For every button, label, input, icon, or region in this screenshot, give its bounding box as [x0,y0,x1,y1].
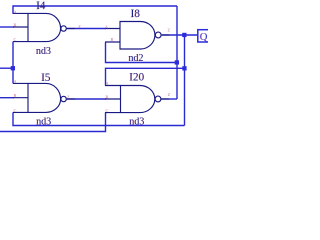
svg-text:B: B [106,95,109,100]
junction node x177 y62 [175,60,179,64]
nand3 gate I4 body [13,13,75,41]
svg-text:I8: I8 [131,8,141,20]
wire I20 output up the x177 vertical [161,98,177,100]
svg-text:nd3: nd3 [36,46,51,57]
svg-text:C: C [14,37,17,42]
svg-text:I20: I20 [129,71,144,83]
svg-text:I5: I5 [41,72,51,84]
svg-text:B: B [14,23,17,28]
junction node I4C-I5A y67.5 [11,66,15,70]
nand3 gate I5 body [13,83,75,112]
wire I8 output to port Q [162,34,198,36]
wire left vertical x13 joining I4 pin C and I5 pin A [12,42,14,84]
svg-text:Z: Z [78,24,81,29]
wire input to I5 pin B from left edge [0,97,14,99]
wire feedback row y67.5 to I20 pin A [106,68,185,85]
svg-text:nd3: nd3 [36,116,51,127]
wire right vertical x177 down to I20 output [176,6,178,99]
svg-text:Z: Z [168,28,171,33]
wire I5 output to I20 pin B [67,98,106,100]
svg-text:Z: Z [168,92,171,97]
junction node x184.5 y35 [182,33,186,37]
svg-text:nd2: nd2 [129,53,144,64]
output port Q box [198,30,210,42]
wire Q feedback vertical x184.5 [184,35,186,126]
wire input bottom row from left edge to I20 pin C [0,113,106,132]
svg-text:I4: I4 [36,0,46,12]
wire input to I4 pin B from left edge [0,26,14,28]
svg-text:B: B [111,37,114,42]
junction node x184.5 y67.5 [182,66,186,70]
wire top feedback from node at x13 to x177 [13,6,177,14]
svg-text:Q: Q [200,32,208,43]
wire input from left edge to junction x13 y67.5 [0,67,13,69]
svg-text:nd3: nd3 [129,116,144,127]
wire Q feedback bottom row to I5 pin C [13,112,185,125]
svg-text:Z: Z [67,95,70,100]
nand3 gate I20 body [105,86,169,113]
svg-text:B: B [14,93,17,98]
svg-text:C: C [14,108,17,113]
nand2 gate I8 body [105,22,169,50]
svg-text:C: C [106,108,109,113]
wire I8 pin B drop to feedback row y62 [106,43,178,63]
wire I4 output to I8 pin A [67,28,106,30]
